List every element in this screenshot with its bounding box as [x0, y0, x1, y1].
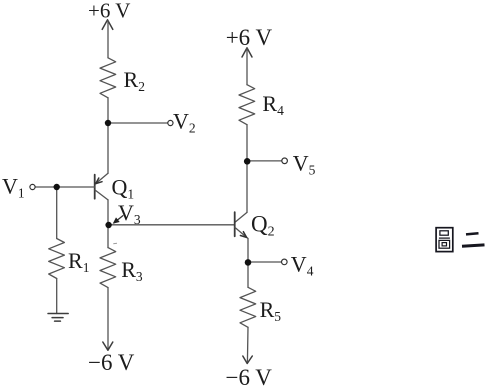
- wire: +6V arrow to R4: [246, 48, 248, 84]
- figure caption 圖二: [436, 228, 484, 252]
- +6V supply arrow (left): [102, 20, 113, 30]
- svg-text:Q1: Q1: [112, 175, 135, 202]
- wire: Q1 collector to node V3: [107, 200, 109, 225]
- wire: R4 to node V5: [246, 125, 248, 162]
- wire: node V3 to R3: [107, 225, 109, 248]
- terminal V1 circle: [30, 184, 35, 189]
- node V4 junction dot: [245, 259, 252, 266]
- svg-text:+6 V: +6 V: [226, 25, 273, 50]
- resistor R2: [100, 58, 116, 98]
- svg-text:+6 V: +6 V: [88, 0, 130, 23]
- svg-text:R2: R2: [124, 67, 145, 94]
- svg-text:R5: R5: [260, 297, 282, 324]
- svg-text:V2: V2: [173, 109, 196, 136]
- node V2 junction dot: [105, 120, 111, 126]
- transistor Q1 emitter line (PNP): [95, 173, 108, 184]
- -6V supply arrow (left): [103, 342, 113, 350]
- transistor Q1 collector line: [95, 190, 108, 200]
- wire: base node to R1: [56, 187, 58, 239]
- wire: node V5 to terminal: [247, 160, 282, 162]
- resistor R1: [49, 239, 65, 279]
- junction dot on Q1 base (R1 tap): [54, 184, 60, 190]
- transistor Q2 emitter line: [235, 228, 248, 239]
- wire: node V2 to terminal: [108, 122, 168, 124]
- wire: node V3 to Q2 base: [108, 224, 235, 226]
- wire: R5 to -6V arrow: [246, 327, 249, 363]
- svg-text:V1: V1: [2, 173, 25, 200]
- svg-text:R3: R3: [121, 257, 143, 284]
- wire: Q2 emitter to node V4: [247, 239, 249, 263]
- svg-text:V4: V4: [291, 252, 314, 279]
- svg-text:V5: V5: [293, 151, 316, 178]
- wire: V1 terminal to Q1 base: [35, 186, 94, 188]
- +6V supply arrow (right): [242, 48, 252, 57]
- transistor Q2 emitter arrowhead: [240, 232, 246, 238]
- -6V supply arrow (right): [243, 356, 253, 364]
- transistor Q1 bar: [94, 175, 96, 199]
- stray mark above R3: [113, 242, 117, 244]
- svg-text:−6 V: −6 V: [88, 350, 135, 375]
- resistor R5: [240, 287, 256, 327]
- transistor Q2 collector line: [235, 212, 247, 222]
- label V3 leader arrowhead: [113, 217, 120, 223]
- node V5 junction dot: [244, 158, 251, 165]
- svg-text:V3: V3: [118, 200, 141, 227]
- resistor R3: [100, 248, 116, 288]
- svg-text:R4: R4: [262, 91, 284, 118]
- terminal V5 circle: [282, 158, 288, 164]
- terminal V2 circle: [168, 120, 173, 125]
- svg-text:R1: R1: [68, 248, 89, 275]
- terminal V4 circle: [282, 259, 288, 265]
- wire: node V4 to R5: [247, 263, 249, 288]
- svg-text:Q2: Q2: [251, 212, 275, 240]
- wire: R3 to -6V arrow: [107, 288, 109, 351]
- wire: node V2 to Q1 emitter: [107, 123, 109, 173]
- wire: R1 to ground: [56, 279, 58, 314]
- wire: R2 to node V2: [107, 98, 109, 123]
- wire: +6V arrow to R2: [107, 21, 109, 58]
- svg-text:−6 V: −6 V: [226, 365, 273, 390]
- resistor R4: [239, 85, 255, 125]
- transistor Q1 emitter arrowhead: [96, 178, 102, 184]
- wire: node V5 to Q2 collector: [246, 161, 248, 212]
- label V3 leader line: [114, 216, 123, 223]
- transistor Q2 bar: [234, 212, 236, 236]
- wire: node V4 to terminal: [248, 261, 281, 263]
- ground: [48, 314, 68, 322]
- node V3 junction dot: [105, 222, 111, 228]
